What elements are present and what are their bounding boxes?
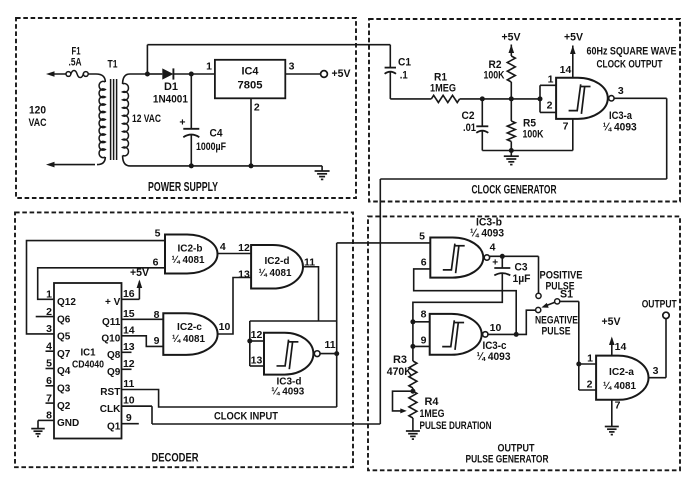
svg-text:1MEG: 1MEG [430, 83, 456, 95]
svg-text:¼ 4081: ¼ 4081 [172, 333, 205, 345]
svg-text:100K: 100K [523, 129, 544, 141]
svg-text:CLK: CLK [100, 404, 121, 415]
svg-text:Q8: Q8 [107, 350, 121, 361]
svg-text:1MEG: 1MEG [420, 408, 445, 420]
svg-text:CLOCK INPUT: CLOCK INPUT [214, 411, 278, 423]
svg-text:10: 10 [123, 395, 135, 407]
svg-text:8: 8 [421, 309, 427, 321]
svg-text:PULSE DURATION: PULSE DURATION [420, 420, 492, 432]
svg-text:Q2: Q2 [57, 401, 71, 412]
svg-text:1µF: 1µF [513, 273, 531, 285]
svg-text:+ V: + V [105, 297, 121, 308]
svg-text:C2: C2 [462, 110, 475, 122]
svg-text:1: 1 [548, 74, 554, 86]
svg-text:13: 13 [251, 355, 263, 367]
svg-text:1: 1 [206, 61, 212, 73]
svg-text:+5V: +5V [502, 32, 522, 44]
svg-text:7805: 7805 [238, 80, 263, 92]
svg-text:7: 7 [563, 121, 569, 133]
svg-text:13: 13 [123, 341, 135, 353]
svg-text:+5V: +5V [602, 316, 622, 328]
svg-text:¼ 4093: ¼ 4093 [603, 122, 637, 134]
svg-text:RST: RST [100, 387, 120, 398]
svg-text:.5A: .5A [69, 57, 82, 69]
svg-text:12 VAC: 12 VAC [132, 113, 161, 125]
svg-text:12: 12 [251, 329, 263, 341]
svg-text:IC2-d: IC2-d [265, 255, 290, 267]
svg-text:+5V: +5V [130, 267, 150, 279]
svg-text:5: 5 [155, 228, 161, 240]
svg-text:PULSE GENERATOR: PULSE GENERATOR [466, 454, 549, 466]
svg-text:IC4: IC4 [242, 66, 260, 78]
svg-text:DECODER: DECODER [152, 451, 199, 465]
svg-text:5: 5 [419, 231, 425, 243]
svg-text:+5V: +5V [332, 68, 352, 80]
svg-text:10: 10 [219, 321, 231, 333]
svg-text:R3: R3 [393, 354, 407, 366]
svg-text:3: 3 [653, 365, 659, 377]
svg-text:Q6: Q6 [57, 314, 71, 325]
svg-text:6: 6 [153, 257, 159, 269]
svg-text:¼ 4081: ¼ 4081 [259, 267, 292, 279]
svg-text:D1: D1 [164, 81, 178, 93]
svg-text:100K: 100K [484, 70, 505, 82]
svg-text:3: 3 [618, 85, 624, 97]
svg-text:13: 13 [238, 269, 250, 281]
svg-text:IC2-c: IC2-c [177, 321, 202, 333]
svg-text:+: + [179, 117, 185, 129]
svg-text:PULSE: PULSE [542, 326, 571, 338]
svg-text:9: 9 [126, 412, 132, 424]
svg-text:10: 10 [490, 322, 502, 334]
svg-text:Q12: Q12 [57, 297, 76, 308]
svg-text:IC2-b: IC2-b [178, 243, 203, 255]
svg-text:14: 14 [615, 341, 627, 353]
svg-text:Q1: Q1 [107, 421, 121, 432]
svg-text:T1: T1 [108, 59, 118, 71]
svg-text:CLOCK OUTPUT: CLOCK OUTPUT [597, 59, 663, 71]
svg-text:4: 4 [220, 241, 226, 253]
svg-text:Q11: Q11 [102, 317, 121, 328]
svg-text:GND: GND [57, 418, 79, 429]
svg-text:IC2-a: IC2-a [609, 366, 634, 378]
svg-text:8: 8 [154, 309, 160, 321]
svg-text:11: 11 [324, 339, 335, 351]
svg-text:1N4001: 1N4001 [153, 93, 188, 105]
svg-text:¼ 4093: ¼ 4093 [271, 386, 304, 398]
svg-text:12: 12 [238, 242, 250, 254]
svg-text:¼ 4093: ¼ 4093 [470, 228, 504, 240]
svg-text:2: 2 [547, 100, 553, 112]
svg-text:OUTPUT: OUTPUT [642, 299, 677, 311]
svg-text:C1: C1 [398, 57, 411, 69]
svg-text:Q3: Q3 [57, 384, 71, 395]
svg-text:60Hz SQUARE WAVE: 60Hz SQUARE WAVE [587, 46, 677, 58]
svg-text:Q5: Q5 [57, 332, 71, 343]
svg-text:+: + [492, 258, 498, 269]
svg-text:VAC: VAC [29, 117, 47, 129]
svg-text:1: 1 [587, 353, 593, 365]
svg-text:C4: C4 [210, 128, 224, 140]
svg-text:Q4: Q4 [57, 366, 71, 377]
svg-text:120: 120 [29, 105, 46, 117]
svg-text:Q10: Q10 [101, 334, 120, 345]
svg-text:9: 9 [154, 335, 160, 347]
svg-text:7: 7 [615, 400, 621, 412]
svg-text:14: 14 [560, 64, 572, 76]
svg-text:Q7: Q7 [57, 349, 71, 360]
svg-text:¼ 4093: ¼ 4093 [477, 351, 511, 363]
svg-text:16: 16 [123, 288, 135, 300]
svg-text:2: 2 [254, 102, 260, 114]
svg-text:3: 3 [289, 61, 295, 73]
svg-text:.1: .1 [400, 70, 408, 82]
svg-text:12: 12 [123, 358, 135, 370]
svg-text:+5V: +5V [564, 32, 584, 44]
svg-text:IC1: IC1 [81, 346, 96, 358]
svg-text:IC3-a: IC3-a [609, 110, 633, 122]
svg-text:C3: C3 [515, 262, 528, 274]
svg-text:POWER SUPPLY: POWER SUPPLY [148, 179, 218, 194]
svg-text:.01: .01 [463, 122, 476, 134]
svg-text:14: 14 [123, 324, 135, 336]
svg-text:2: 2 [587, 379, 593, 391]
svg-text:9: 9 [421, 335, 427, 347]
svg-text:S1: S1 [560, 289, 573, 301]
svg-text:CD4040: CD4040 [72, 359, 104, 371]
svg-text:Q9: Q9 [107, 367, 121, 378]
svg-text:15: 15 [123, 308, 135, 320]
svg-text:R4: R4 [425, 396, 440, 408]
svg-text:4: 4 [490, 242, 496, 254]
svg-text:1000µF: 1000µF [196, 141, 226, 153]
svg-text:6: 6 [421, 257, 427, 269]
svg-text:11: 11 [123, 378, 134, 390]
svg-text:¼ 4081: ¼ 4081 [603, 380, 636, 392]
svg-text:¼ 4081: ¼ 4081 [172, 254, 205, 266]
svg-text:CLOCK GENERATOR: CLOCK GENERATOR [472, 183, 557, 197]
